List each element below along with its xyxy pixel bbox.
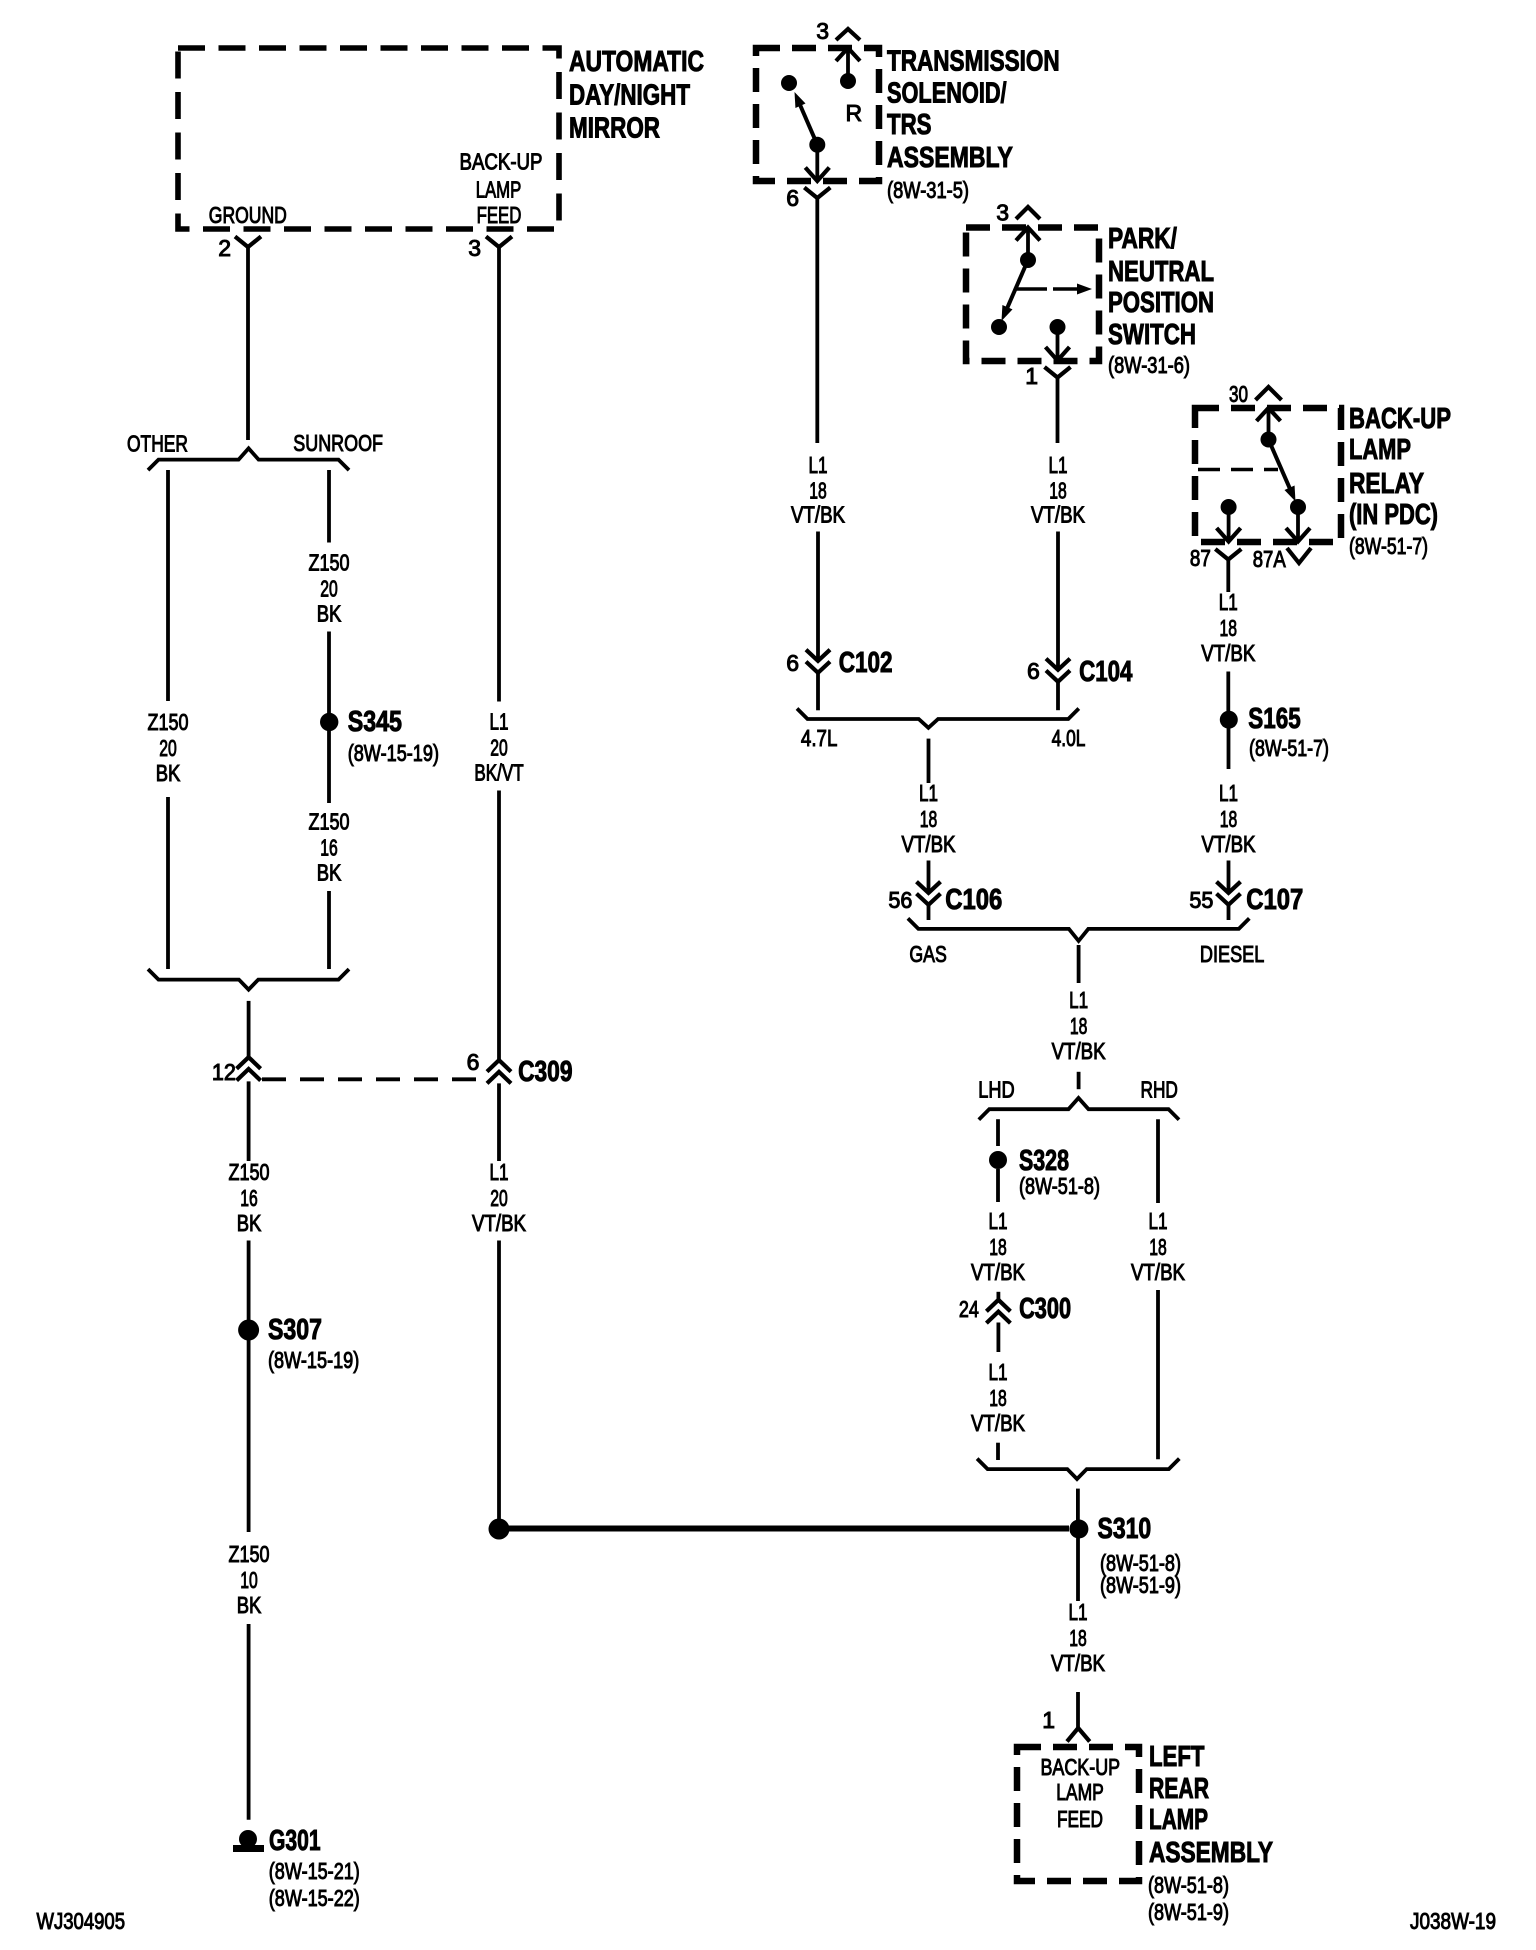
svg-text:18: 18: [1049, 478, 1067, 504]
svg-text:18: 18: [989, 1234, 1007, 1260]
merge brace GAS / DIESEL: [908, 918, 1249, 941]
svg-text:L1: L1: [1069, 987, 1088, 1013]
wire: segment above C107: [1227, 861, 1231, 893]
wire: LHD segment below C300: [997, 1323, 1001, 1353]
svg-text:24: 24: [959, 1296, 979, 1322]
wire: PNP lead below C104 to 4.0L merge: [1056, 682, 1060, 711]
splice S307: [238, 1314, 322, 1346]
merge brace 4.7L / 4.0L: [797, 709, 1079, 728]
pin 1 female connector of left rear lamp: [1042, 1707, 1089, 1742]
svg-text:Z150: Z150: [229, 1541, 270, 1567]
svg-text:SUNROOF: SUNROOF: [293, 430, 383, 456]
wire: relay lead below S165: [1227, 728, 1231, 769]
label: AUTOMATIC DAY/NIGHT MIRROR: [569, 46, 704, 145]
wire: segment below C106 to GAS merge: [927, 905, 931, 920]
wire: segment above LHD/RHD split: [1077, 1072, 1081, 1089]
connector C107 (double chevron down): [1189, 882, 1303, 916]
svg-text:(IN PDC): (IN PDC): [1349, 499, 1438, 531]
svg-text:LAMP: LAMP: [1149, 1804, 1208, 1836]
svg-text:TRS: TRS: [887, 109, 932, 141]
pin label BACK-UP LAMP FEED (mirror pin 3): [460, 149, 543, 229]
svg-text:20: 20: [490, 1185, 508, 1211]
junction dot at left end of S310 bus: [489, 1519, 510, 1540]
wire: bottom ground lead segment to G301: [247, 1624, 251, 1820]
svg-text:VT/BK: VT/BK: [971, 1410, 1026, 1436]
svg-text:ASSEMBLY: ASSEMBLY: [1149, 1837, 1273, 1869]
svg-text:87A: 87A: [1253, 546, 1287, 572]
component box: transmission solenoid / TRS assembly (dashed outline): [756, 48, 879, 181]
relay contact 87A: [1290, 499, 1306, 515]
wire: PNP pin 1 lead down (x=1057.5): [1056, 377, 1060, 444]
wire: segment above splice S307: [247, 1241, 251, 1533]
svg-text:Z150: Z150: [148, 709, 189, 735]
svg-text:VT/BK: VT/BK: [1051, 1650, 1106, 1676]
wire: mirror pin 3 back-up lamp feed down to C309 (x=499): [497, 246, 501, 702]
PNP pin 1 exit wire and arrow: [1046, 327, 1070, 361]
svg-text:RHD: RHD: [1141, 1077, 1178, 1103]
svg-text:J038W-19: J038W-19: [1410, 1908, 1496, 1934]
svg-text:WJ304905: WJ304905: [37, 1908, 126, 1934]
svg-text:56: 56: [888, 887, 912, 913]
svg-text:GROUND: GROUND: [209, 202, 287, 228]
svg-text:BACK-UP: BACK-UP: [1040, 1754, 1120, 1780]
svg-text:(8W-31-5): (8W-31-5): [887, 177, 969, 203]
svg-text:VT/BK: VT/BK: [472, 1210, 527, 1236]
svg-text:L1: L1: [1069, 1599, 1088, 1625]
svg-text:20: 20: [490, 735, 508, 761]
svg-text:C309: C309: [518, 1056, 572, 1088]
svg-text:C107: C107: [1246, 884, 1303, 916]
wire: SUNROOF branch upper segment (x=329): [327, 470, 331, 543]
PNP actuator arrow: [1053, 284, 1092, 295]
pin label BACK-UP LAMP FEED (lamp box): [1040, 1754, 1120, 1832]
bus wire from feed junction to S310 (thick): [499, 1526, 1069, 1532]
svg-text:RELAY: RELAY: [1349, 468, 1424, 500]
TRS pin 6 exit wire and arrow: [805, 145, 829, 181]
svg-text:16: 16: [320, 835, 338, 861]
relay pin 87A exit wire and arrow: [1286, 507, 1310, 542]
wire: SUNROOF branch segment below splice S345: [327, 730, 331, 803]
svg-text:C104: C104: [1079, 656, 1132, 688]
label: BACK-UP LAMP RELAY (IN PDC): [1349, 403, 1451, 531]
wire: LHD bottom segment to merge: [996, 1443, 1000, 1460]
svg-text:87: 87: [1190, 545, 1211, 571]
svg-text:S310: S310: [1098, 1513, 1152, 1545]
connector C300 (double chevron up): [959, 1293, 1071, 1325]
svg-text:LAMP: LAMP: [1349, 434, 1411, 466]
svg-text:NEUTRAL: NEUTRAL: [1108, 256, 1214, 288]
svg-text:18: 18: [989, 1385, 1007, 1411]
svg-text:(8W-15-22): (8W-15-22): [269, 1885, 360, 1911]
wire: segment above lamp connector pin 1: [1076, 1692, 1080, 1728]
svg-text:18: 18: [1070, 1013, 1088, 1039]
svg-text:2: 2: [218, 235, 231, 261]
svg-text:LAMP: LAMP: [1056, 1779, 1104, 1805]
svg-text:(8W-51-8): (8W-51-8): [1148, 1872, 1229, 1898]
svg-text:30: 30: [1229, 381, 1248, 407]
svg-text:MIRROR: MIRROR: [569, 113, 660, 145]
svg-text:18: 18: [809, 478, 827, 504]
svg-text:(8W-51-8): (8W-51-8): [1019, 1173, 1100, 1199]
svg-text:PARK/: PARK/: [1108, 223, 1177, 255]
svg-text:BK: BK: [317, 860, 342, 886]
svg-text:L1: L1: [1219, 780, 1238, 806]
svg-text:DIESEL: DIESEL: [1200, 941, 1265, 967]
pin 3 connector (female) of mirror: [468, 235, 512, 261]
svg-text:LAMP: LAMP: [476, 177, 522, 203]
svg-text:(8W-51-9): (8W-51-9): [1148, 1899, 1229, 1925]
svg-text:(8W-51-7): (8W-51-7): [1249, 735, 1329, 761]
svg-text:S307: S307: [268, 1314, 322, 1346]
wire: TRS pin 6 lead down (x=817.3): [815, 197, 819, 443]
connector C106 (double chevron down): [888, 882, 1002, 916]
svg-text:BK/VT: BK/VT: [474, 760, 523, 786]
connector C309 dashed tie line: [262, 1077, 487, 1081]
PNP actuator tie line: [1016, 287, 1047, 290]
relay contact 87: [1221, 499, 1237, 515]
wire: LHD branch segment below split (x=998): [996, 1119, 1000, 1146]
svg-text:L1: L1: [1219, 589, 1238, 615]
svg-text:3: 3: [468, 235, 481, 261]
svg-text:55: 55: [1189, 887, 1213, 913]
svg-text:C102: C102: [839, 647, 893, 679]
TRS pin 3 entry arrow and contact: [836, 48, 860, 89]
wire: merged ground lead down to connector C309 pin 12: [247, 1001, 251, 1057]
splice S310: [1069, 1513, 1151, 1545]
svg-text:OTHER: OTHER: [127, 431, 188, 457]
svg-text:18: 18: [1149, 1234, 1167, 1260]
wire: relay pin 87 lead down (x=1228.3): [1226, 559, 1230, 593]
svg-text:R: R: [846, 100, 863, 126]
svg-text:ASSEMBLY: ASSEMBLY: [887, 142, 1013, 174]
svg-text:SWITCH: SWITCH: [1108, 319, 1196, 351]
wire: OTHER branch lower segment: [166, 797, 170, 969]
svg-text:VT/BK: VT/BK: [971, 1259, 1026, 1285]
svg-text:L1: L1: [989, 1359, 1008, 1385]
label: LEFT REAR LAMP ASSEMBLY: [1149, 1741, 1273, 1869]
svg-text:TRANSMISSION: TRANSMISSION: [887, 46, 1060, 78]
splice S165: [1220, 703, 1301, 735]
svg-text:AUTOMATIC: AUTOMATIC: [569, 46, 704, 78]
connector C102 (double chevron down): [786, 647, 892, 679]
PNP switch arm toward reverse contact: [1002, 260, 1029, 321]
svg-text:20: 20: [320, 576, 338, 602]
pin 1 female connector below PNP box: [1025, 363, 1070, 389]
TRS reverse contact R: [781, 75, 862, 126]
wire: segment below C107 to DIESEL merge: [1227, 905, 1231, 920]
wire: feed lead down to junction with S310 bus: [497, 1241, 501, 1524]
svg-text:VT/BK: VT/BK: [1031, 502, 1086, 528]
wire: mirror pin 2 ground lead down to OTHER/SUNROOF split: [246, 246, 250, 440]
wire: TRS lead between label and C102: [816, 532, 820, 661]
svg-text:3: 3: [996, 200, 1009, 226]
svg-text:Z150: Z150: [309, 550, 350, 576]
splice S345: [320, 706, 402, 738]
svg-text:(8W-15-19): (8W-15-19): [268, 1347, 359, 1373]
label: TRANSMISSION SOLENOID/ TRS ASSEMBLY: [887, 46, 1060, 175]
svg-text:C106: C106: [945, 884, 1002, 916]
svg-text:LEFT: LEFT: [1149, 1741, 1205, 1773]
svg-text:REAR: REAR: [1149, 1773, 1209, 1805]
svg-text:L1: L1: [989, 1208, 1008, 1234]
svg-text:4.7L: 4.7L: [801, 725, 838, 751]
merge brace joining OTHER and SUNROOF branches: [148, 969, 349, 990]
svg-text:SOLENOID/: SOLENOID/: [887, 78, 1007, 110]
connector C104 (double chevron down): [1027, 656, 1132, 688]
TRS switch arm (points to R contact): [795, 92, 818, 145]
svg-text:L1: L1: [1149, 1208, 1168, 1234]
svg-text:DAY/NIGHT: DAY/NIGHT: [569, 80, 690, 112]
svg-text:G301: G301: [269, 1825, 321, 1857]
svg-text:L1: L1: [919, 780, 938, 806]
svg-text:L1: L1: [1049, 452, 1068, 478]
wire: lead below S310: [1076, 1538, 1080, 1601]
wire stub above C300: [997, 1292, 1001, 1300]
svg-text:Z150: Z150: [309, 809, 350, 835]
split brace LHD / RHD: [979, 1098, 1179, 1120]
relay internal divider (dashed): [1198, 468, 1278, 472]
svg-text:POSITION: POSITION: [1108, 287, 1214, 319]
svg-text:16: 16: [240, 1185, 258, 1211]
wire: segment above C106: [927, 861, 931, 893]
svg-text:VT/BK: VT/BK: [1201, 640, 1256, 666]
svg-text:Z150: Z150: [229, 1159, 270, 1185]
svg-text:BACK-UP: BACK-UP: [460, 149, 543, 175]
svg-text:12: 12: [212, 1059, 236, 1085]
relay pin 30 entry arrow and common contact: [1257, 408, 1281, 448]
svg-text:BACK-UP: BACK-UP: [1349, 403, 1451, 435]
svg-text:(8W-51-7): (8W-51-7): [1349, 533, 1428, 559]
svg-text:L1: L1: [490, 709, 509, 735]
svg-text:S345: S345: [348, 706, 402, 738]
split brace OTHER/SUNROOF: [148, 448, 349, 470]
wire: merged lead down to splice S310: [1076, 1489, 1080, 1520]
relay pin 87 exit wire and arrow: [1217, 507, 1241, 542]
svg-text:6: 6: [467, 1049, 480, 1075]
svg-text:S165: S165: [1248, 703, 1300, 735]
component box: park/neutral position switch (dashed outline): [966, 228, 1099, 362]
svg-text:GAS: GAS: [909, 941, 946, 967]
wire: TRS lead below C102 to 4.7L merge: [816, 673, 820, 711]
pin 87 female connector below relay box: [1190, 545, 1241, 571]
svg-text:18: 18: [1220, 615, 1238, 641]
svg-text:FEED: FEED: [477, 202, 522, 228]
svg-text:6: 6: [786, 650, 799, 676]
svg-text:18: 18: [920, 806, 938, 832]
pin 30 male connector above back-up lamp relay box: [1229, 381, 1282, 407]
svg-text:LHD: LHD: [978, 1077, 1014, 1103]
svg-text:BK: BK: [237, 1210, 262, 1236]
connector C309 pin 6 (double chevron): [467, 1049, 511, 1083]
pin 3 male connector above transmission solenoid box: [816, 18, 860, 44]
wire: OTHER branch upper segment (x=168): [166, 470, 170, 701]
svg-text:(8W-51-9): (8W-51-9): [1100, 1572, 1181, 1598]
svg-text:C300: C300: [1019, 1293, 1071, 1325]
svg-text:18: 18: [1220, 806, 1238, 832]
pin 3 male connector above park/neutral position switch box: [996, 200, 1040, 226]
svg-text:6: 6: [786, 185, 799, 211]
wire: feed lead below C309: [497, 1083, 501, 1161]
svg-text:4.0L: 4.0L: [1052, 725, 1086, 751]
svg-text:VT/BK: VT/BK: [1131, 1259, 1186, 1285]
merge brace LHD/RHD to S310: [977, 1459, 1179, 1479]
svg-text:L1: L1: [490, 1159, 509, 1185]
relay switch arm toward 87A contact: [1269, 440, 1296, 502]
component box: automatic day/night mirror (dashed outline): [178, 48, 559, 229]
PNP reverse contact: [991, 319, 1007, 335]
svg-text:VT/BK: VT/BK: [902, 831, 957, 857]
wire: SUNROOF branch bottom segment: [327, 891, 331, 969]
pin 6 female connector below TRS box: [786, 185, 830, 211]
label: PARK/ NEUTRAL POSITION SWITCH: [1108, 223, 1214, 351]
svg-text:20: 20: [159, 735, 177, 761]
svg-text:BK: BK: [317, 601, 342, 627]
svg-text:(8W-15-19): (8W-15-19): [348, 740, 439, 766]
wire: feed lead between label and C309: [497, 791, 501, 1060]
pin 2 connector (female) of mirror: [218, 235, 261, 261]
wire: merged engine lead down (x=928.5): [927, 739, 931, 783]
pin 87A unused connector chevron: [1253, 546, 1311, 572]
component box: left rear lamp assembly feed (dashed outline): [1017, 1747, 1139, 1881]
TRS common contact: [809, 137, 825, 153]
svg-text:(8W-15-21): (8W-15-21): [269, 1858, 360, 1884]
svg-text:VT/BK: VT/BK: [1202, 831, 1257, 857]
svg-text:BK: BK: [156, 760, 181, 786]
PNP pin 3 entry arrow and contact: [1016, 228, 1040, 269]
wire: RHD branch lower segment: [1156, 1290, 1160, 1459]
wire: RHD branch upper segment (x=1158): [1156, 1119, 1160, 1203]
wire: LHD segment below S328: [996, 1169, 1000, 1202]
svg-text:6: 6: [1027, 658, 1040, 684]
ground G301 symbol: [233, 1830, 264, 1849]
wire: ground lead below C309 (x=248.6): [247, 1081, 251, 1161]
component box: back-up lamp relay in PDC (dashed outline): [1195, 408, 1341, 542]
connector C309 pin 12 (double chevron): [212, 1057, 261, 1085]
svg-text:VT/BK: VT/BK: [791, 502, 846, 528]
wire: SUNROOF branch segment above splice S345: [327, 632, 331, 715]
svg-text:L1: L1: [809, 452, 828, 478]
svg-text:FEED: FEED: [1057, 1806, 1103, 1832]
svg-text:18: 18: [1069, 1625, 1087, 1651]
splice S328: [989, 1145, 1069, 1177]
svg-text:BK: BK: [237, 1592, 262, 1618]
svg-text:3: 3: [816, 18, 829, 44]
svg-text:1: 1: [1025, 363, 1038, 389]
svg-text:VT/BK: VT/BK: [1052, 1038, 1107, 1064]
svg-text:1: 1: [1042, 1707, 1055, 1733]
svg-text:(8W-31-6): (8W-31-6): [1108, 352, 1190, 378]
wire: PNP lead between label and C104: [1056, 532, 1060, 670]
PNP output contact: [1050, 319, 1066, 335]
svg-text:10: 10: [240, 1567, 258, 1593]
wire: merged feed lead down (x=1078.6): [1077, 945, 1081, 983]
wire: relay lead between label and splice S165: [1226, 672, 1230, 712]
